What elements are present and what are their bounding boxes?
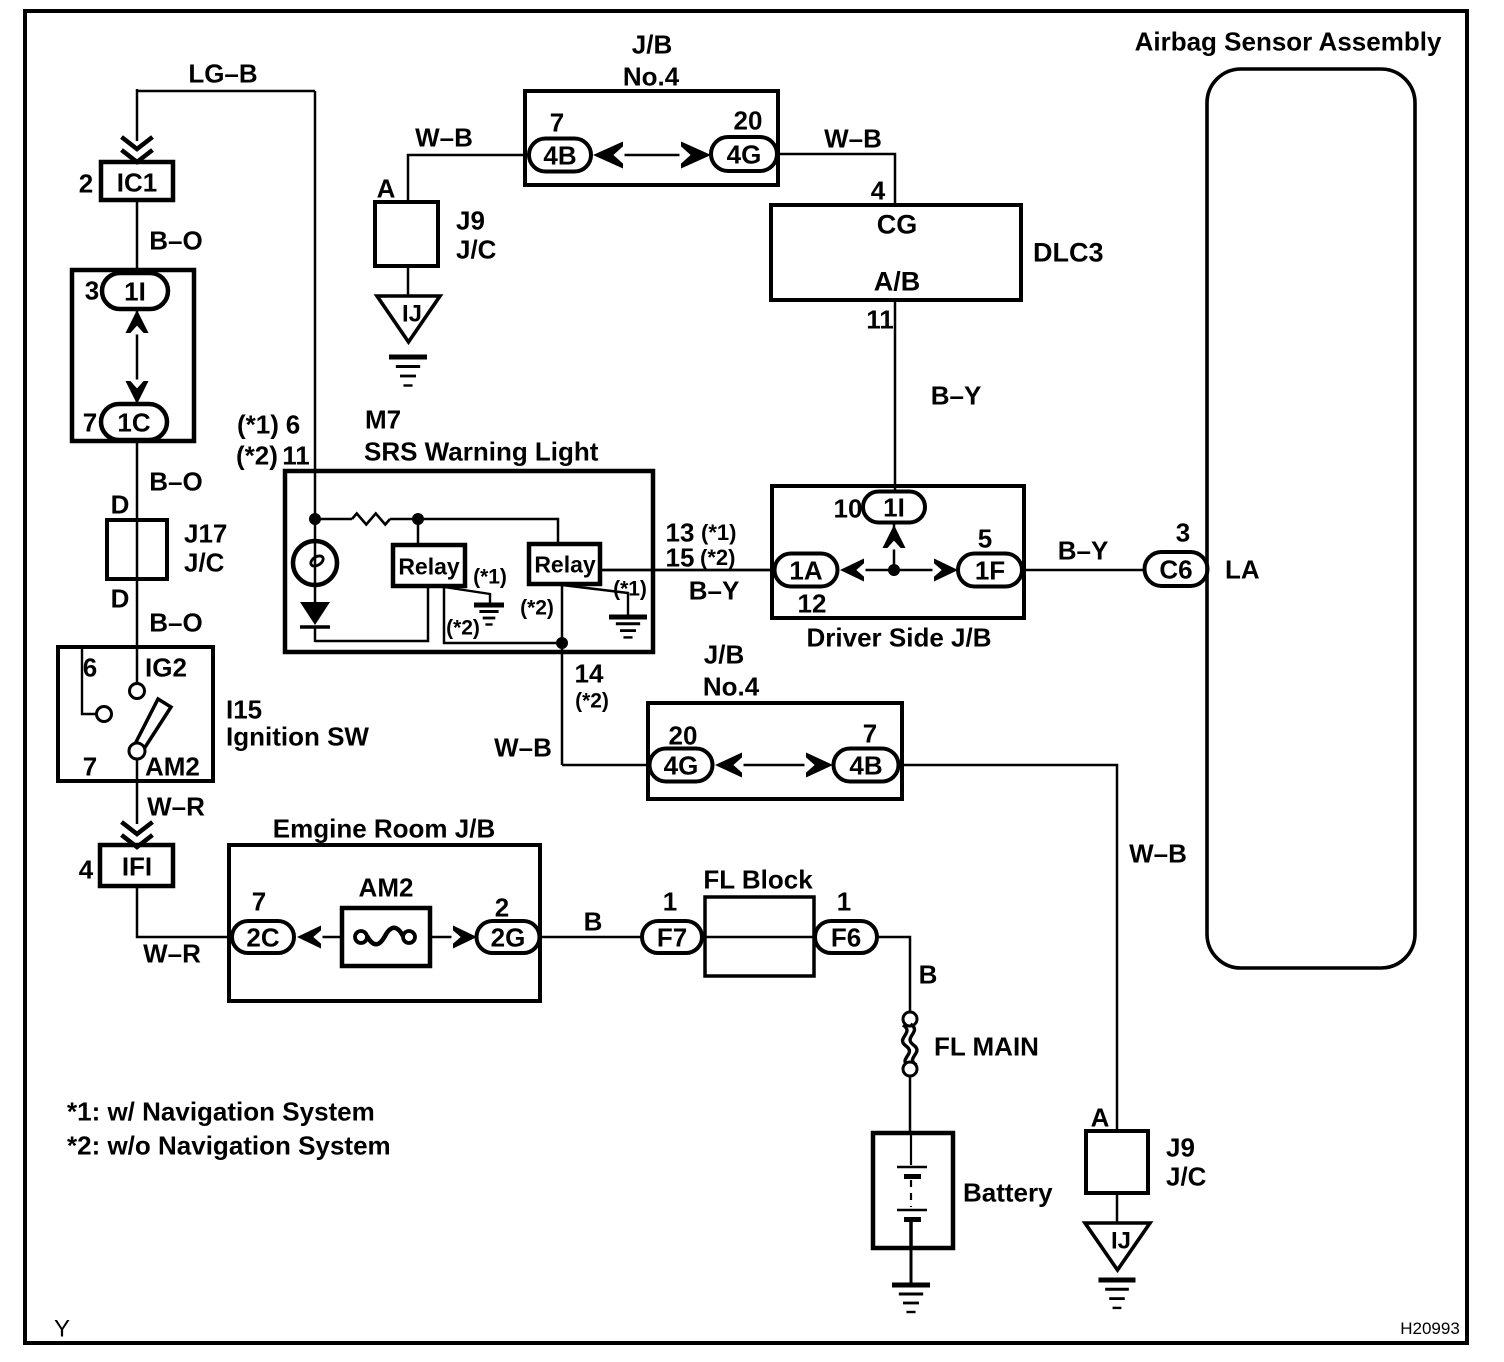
svg-text:J9: J9 bbox=[1166, 1132, 1195, 1162]
svg-text:A: A bbox=[377, 173, 396, 203]
svg-text:(*2): (*2) bbox=[446, 617, 480, 640]
crossing chevrons above IC1 bbox=[122, 137, 153, 162]
svg-text:Emgine Room J/B: Emgine Room J/B bbox=[273, 813, 495, 843]
svg-text:FL Block: FL Block bbox=[703, 864, 813, 894]
svg-text:I15: I15 bbox=[226, 694, 262, 724]
label W-B top right bbox=[824, 123, 882, 153]
terminal A/B label bbox=[874, 267, 921, 297]
wire through J9 bottom bbox=[1116, 1193, 1119, 1225]
svg-text:10: 10 bbox=[834, 493, 863, 523]
svg-text:Y: Y bbox=[54, 1316, 70, 1343]
svg-text:D: D bbox=[111, 489, 130, 519]
pin 2 label above 2G bbox=[495, 892, 509, 922]
label Battery bbox=[963, 1177, 1053, 1207]
relay2 ground symbol bbox=[609, 617, 647, 637]
svg-text:1C: 1C bbox=[117, 407, 150, 437]
label B-O middle bbox=[149, 466, 202, 496]
junction block 1I/1C box bbox=[72, 270, 194, 441]
svg-text:(*1): (*1) bbox=[473, 566, 507, 589]
label A bottom J9 bbox=[1091, 1102, 1110, 1132]
svg-text:W–B: W–B bbox=[1129, 838, 1187, 868]
page letter Y bbox=[54, 1316, 70, 1343]
connector oval 4B top bbox=[529, 139, 591, 172]
svg-text:W–R: W–R bbox=[143, 938, 201, 968]
connector oval 1I driver bbox=[863, 492, 925, 523]
svg-text:7: 7 bbox=[83, 751, 97, 781]
label LA bbox=[1225, 554, 1260, 584]
crossing chevrons above IF1 bbox=[122, 822, 153, 847]
pin 6 label bbox=[83, 652, 97, 682]
label DLC3 bbox=[1033, 238, 1104, 268]
wire AM2 down (W-R) bbox=[136, 759, 139, 824]
svg-text:IJ: IJ bbox=[1111, 1228, 1131, 1255]
wire into 4G lower bbox=[562, 764, 650, 767]
svg-text:3: 3 bbox=[85, 275, 99, 305]
svg-text:DLC3: DLC3 bbox=[1033, 238, 1104, 268]
wire LG-B horizontal bbox=[137, 90, 315, 93]
label D below J17 bbox=[111, 583, 130, 613]
junction connector J9 bottom bbox=[1086, 1131, 1148, 1193]
svg-text:SRS Warning Light: SRS Warning Light bbox=[364, 436, 599, 466]
connector oval 1F bbox=[958, 554, 1022, 587]
pin 1 label above F6 bbox=[837, 886, 851, 916]
ground triangle IJ top bbox=[377, 296, 440, 342]
connector oval 1I bbox=[102, 273, 168, 309]
label FL MAIN bbox=[934, 1031, 1039, 1061]
switch pigtail wire bbox=[82, 649, 96, 714]
connector IF1 bbox=[100, 845, 173, 886]
pin 20 label above 4G lower bbox=[669, 720, 698, 750]
connector oval 4B lower bbox=[834, 749, 899, 782]
wire relay2 down pin 14 bbox=[561, 584, 564, 765]
wire IF1 to 2C (W-R) bbox=[137, 886, 232, 937]
svg-text:Ignition SW: Ignition SW bbox=[226, 721, 369, 751]
pin 7 label bbox=[83, 407, 97, 437]
label J/B No.4 top bbox=[623, 29, 680, 91]
pin 11 label DLC3 bbox=[866, 304, 894, 334]
Driver Side J/B box bbox=[772, 486, 1024, 618]
IJ bottom ground bbox=[1099, 1280, 1136, 1308]
node junction resistor right bbox=[412, 513, 424, 525]
label B-Y right bbox=[1058, 535, 1109, 565]
svg-text:20: 20 bbox=[734, 105, 763, 135]
svg-text:4G: 4G bbox=[727, 139, 762, 169]
label 13 15 B-Y bbox=[666, 517, 740, 605]
svg-text:D: D bbox=[111, 583, 130, 613]
connector oval 4G top bbox=[711, 137, 777, 171]
wire battery to ground bbox=[910, 1248, 913, 1284]
svg-text:(*2): (*2) bbox=[575, 690, 609, 713]
svg-text:(*2): (*2) bbox=[700, 545, 735, 570]
label (*2) relay1 bbox=[446, 617, 480, 640]
battery internal wire bottom bbox=[909, 1222, 913, 1250]
airbag sensor assembly outline bbox=[1207, 69, 1415, 968]
svg-text:11: 11 bbox=[282, 440, 310, 470]
svg-text:FL MAIN: FL MAIN bbox=[934, 1031, 1039, 1061]
svg-text:H20993: H20993 bbox=[1400, 1319, 1460, 1338]
svg-text:1A: 1A bbox=[789, 555, 822, 585]
arrow down to 1C bbox=[126, 380, 149, 405]
svg-text:AM2: AM2 bbox=[359, 872, 414, 902]
wire relay1 to pin14 run bbox=[444, 586, 562, 643]
svg-text:W–B: W–B bbox=[494, 732, 552, 762]
wire 4B to 4G internal top bbox=[615, 154, 689, 157]
connector oval 1C bbox=[101, 404, 167, 440]
svg-text:J/B: J/B bbox=[632, 29, 672, 59]
label pins (*1)6 (*2)11 bbox=[236, 409, 310, 470]
arrow into 2G bbox=[452, 926, 478, 949]
svg-text:J17: J17 bbox=[184, 518, 227, 548]
pin 10 label bbox=[834, 493, 863, 523]
battery internal dashes bbox=[910, 1180, 912, 1207]
arrow into 1F bbox=[933, 559, 959, 582]
wire relay2 to driver J/B bbox=[600, 569, 774, 572]
svg-text:12: 12 bbox=[798, 588, 827, 618]
svg-text:4: 4 bbox=[79, 854, 94, 884]
connector oval 4G lower bbox=[650, 749, 713, 782]
switch contact IG2 circle bbox=[130, 684, 145, 699]
FL Block box bbox=[705, 897, 814, 976]
svg-text:3: 3 bbox=[1176, 517, 1190, 547]
svg-text:15: 15 bbox=[666, 542, 695, 572]
pin 3 label C6 bbox=[1176, 517, 1190, 547]
wire 4G to 4B internal lower bbox=[737, 764, 811, 767]
diode in M7 bbox=[300, 602, 330, 627]
label (*1) relay2 bbox=[613, 578, 647, 601]
note navigation *1 bbox=[67, 1096, 375, 1126]
connector oval 2C bbox=[232, 921, 294, 953]
connector oval C6 bbox=[1145, 552, 1208, 586]
pin 7 label above 4B lower bbox=[863, 718, 877, 748]
relay1 ground branch (*1) bbox=[444, 587, 490, 605]
svg-text:(*1): (*1) bbox=[613, 578, 647, 601]
svg-text:2G: 2G bbox=[491, 922, 526, 952]
svg-text:No.4: No.4 bbox=[703, 671, 760, 701]
svg-text:W–B: W–B bbox=[415, 122, 473, 152]
terminal IG2 label bbox=[145, 652, 187, 682]
svg-text:B–Y: B–Y bbox=[689, 575, 740, 605]
Engine Room J/B box bbox=[229, 845, 540, 1001]
connector oval 1A bbox=[775, 554, 838, 587]
label W-R upper bbox=[147, 791, 205, 821]
J/B No.4 top box bbox=[525, 91, 778, 185]
fuse AM2 label bbox=[359, 872, 414, 902]
wire through J9 top bbox=[407, 266, 410, 298]
fusible link FL MAIN squiggle bbox=[903, 1024, 917, 1066]
svg-text:4: 4 bbox=[871, 175, 886, 205]
arrow up to 1I bbox=[126, 310, 149, 335]
connector oval F6 bbox=[815, 921, 877, 953]
figure number H20993 bbox=[1400, 1319, 1460, 1338]
svg-text:B–O: B–O bbox=[149, 607, 202, 637]
svg-text:Airbag Sensor Assembly: Airbag Sensor Assembly bbox=[1135, 26, 1442, 56]
wire IC1 to 1I (B-O) bbox=[136, 200, 139, 274]
svg-text:4B: 4B bbox=[543, 140, 576, 170]
wire junction to relay2 bbox=[418, 519, 558, 545]
svg-text:A/B: A/B bbox=[874, 267, 921, 297]
pin 4 label DLC3 bbox=[871, 175, 886, 205]
arrow into 4G top bbox=[680, 142, 712, 169]
label LG-B bbox=[188, 58, 257, 88]
svg-text:1: 1 bbox=[663, 886, 677, 916]
wire diode to bottom bbox=[314, 627, 317, 642]
pin 7 label above 2C bbox=[252, 886, 266, 916]
wire 4B to J9 (W-B) bbox=[408, 155, 529, 204]
switch lever bbox=[134, 699, 171, 752]
svg-text:LA: LA bbox=[1225, 554, 1260, 584]
label B battery side bbox=[919, 959, 938, 989]
svg-text:No.4: No.4 bbox=[623, 61, 680, 91]
label W-B left of lower JB bbox=[494, 732, 552, 762]
pin 4 label bbox=[79, 854, 94, 884]
label J9 J/C top bbox=[456, 205, 497, 264]
svg-text:1: 1 bbox=[837, 886, 851, 916]
arrow into 4G lower bbox=[715, 753, 744, 778]
svg-text:7: 7 bbox=[550, 107, 564, 137]
svg-text:1F: 1F bbox=[975, 555, 1005, 585]
svg-text:IC1: IC1 bbox=[117, 167, 157, 197]
svg-text:B–O: B–O bbox=[149, 466, 202, 496]
svg-text:M7: M7 bbox=[365, 404, 401, 434]
svg-text:CG: CG bbox=[877, 210, 918, 240]
pin 3 label bbox=[85, 275, 99, 305]
DLC3 box bbox=[771, 205, 1021, 300]
junction connector J17 J/C bbox=[107, 520, 167, 579]
junction connector J9 top bbox=[375, 202, 438, 266]
svg-text:(*2): (*2) bbox=[236, 440, 278, 470]
relay 1 bbox=[393, 545, 465, 586]
fusible link bottom terminal bbox=[903, 1062, 917, 1076]
svg-text:5: 5 bbox=[978, 523, 992, 553]
svg-text:1I: 1I bbox=[883, 492, 905, 522]
svg-text:6: 6 bbox=[83, 652, 97, 682]
wire F7 through FL Block to F6 bbox=[702, 936, 816, 939]
svg-text:J/C: J/C bbox=[456, 234, 497, 264]
svg-text:14: 14 bbox=[575, 658, 604, 688]
relay 2 bbox=[529, 544, 600, 584]
battery ground bbox=[892, 1285, 930, 1312]
wire junction to relay1 bbox=[417, 519, 420, 546]
note navigation *2 bbox=[67, 1130, 391, 1160]
svg-text:F6: F6 bbox=[831, 922, 861, 952]
svg-text:A: A bbox=[1091, 1102, 1110, 1132]
wire 4G to DLC3 (W-B) bbox=[777, 154, 895, 206]
connector oval F7 bbox=[642, 921, 702, 953]
pin 7 label AM2 bbox=[83, 751, 97, 781]
pin 5 label bbox=[978, 523, 992, 553]
wire 2G to F7 (B) bbox=[539, 936, 642, 939]
pin 12 label bbox=[798, 588, 827, 618]
SRS warning light box bbox=[285, 471, 653, 652]
svg-text:2: 2 bbox=[79, 168, 93, 198]
switch pivot AM2 circle bbox=[129, 743, 145, 759]
label M7 SRS Warning Light bbox=[364, 404, 599, 466]
wire 1A to 1F bus bbox=[862, 569, 934, 572]
svg-text:4G: 4G bbox=[664, 750, 699, 780]
wire fuse to 2G bbox=[430, 936, 455, 939]
pin 7 label above 4B bbox=[550, 107, 564, 137]
wire 1F to C6 (B-Y) bbox=[1022, 569, 1146, 572]
fuse AM2 box bbox=[342, 908, 430, 966]
svg-text:J9: J9 bbox=[456, 205, 485, 235]
node junction driver bbox=[888, 564, 900, 576]
label (*1) relay1 bbox=[473, 566, 507, 589]
wire 1C to ignition switch (B-O) bbox=[136, 440, 139, 684]
label W-B top left bbox=[415, 122, 473, 152]
svg-text:2: 2 bbox=[495, 892, 509, 922]
svg-text:W–R: W–R bbox=[147, 791, 205, 821]
fusible link top terminal bbox=[903, 1012, 917, 1026]
svg-text:6: 6 bbox=[286, 409, 300, 439]
svg-text:7: 7 bbox=[863, 718, 877, 748]
wire F6 to battery branch bbox=[877, 937, 910, 1012]
node junction lamp bbox=[309, 513, 321, 525]
svg-text:F7: F7 bbox=[657, 922, 687, 952]
svg-text:B–Y: B–Y bbox=[1058, 535, 1109, 565]
svg-text:(*1): (*1) bbox=[701, 520, 736, 545]
svg-text:7: 7 bbox=[83, 407, 97, 437]
label J9 J/C bottom bbox=[1166, 1132, 1207, 1191]
svg-text:*2: w/o Navigation System: *2: w/o Navigation System bbox=[67, 1130, 391, 1160]
label J17 J/C bbox=[184, 518, 227, 577]
label B-O lower bbox=[149, 607, 202, 637]
relay1 ground symbol bbox=[474, 605, 504, 625]
label Driver Side J/B bbox=[807, 622, 992, 652]
svg-text:LG–B: LG–B bbox=[188, 58, 257, 88]
svg-text:J/C: J/C bbox=[184, 547, 225, 577]
fuse AM2 element bbox=[355, 928, 415, 945]
svg-text:IFI: IFI bbox=[122, 851, 152, 881]
wire 1I to bus bbox=[893, 524, 896, 570]
connector IC1 pin 2 label bbox=[79, 168, 93, 198]
svg-text:B–O: B–O bbox=[149, 225, 202, 255]
wire LG-B drop to IC1 bbox=[136, 89, 139, 141]
svg-text:(*1): (*1) bbox=[237, 409, 279, 439]
svg-text:C6: C6 bbox=[1159, 554, 1192, 584]
label Emgine Room J/B bbox=[273, 813, 495, 843]
node junction pin14 bbox=[556, 637, 568, 649]
svg-text:Relay: Relay bbox=[534, 551, 596, 577]
battery cell 2 bbox=[897, 1210, 927, 1220]
terminal CG label bbox=[877, 210, 918, 240]
arrow into 2C bbox=[297, 926, 323, 949]
FL Block label bbox=[703, 864, 813, 894]
resistor in M7 bbox=[315, 514, 418, 525]
arrow into 4B lower bbox=[805, 753, 834, 778]
battery internal wire top bbox=[910, 1135, 912, 1165]
svg-text:Battery: Battery bbox=[963, 1177, 1053, 1207]
ground triangle IJ bottom bbox=[1085, 1223, 1150, 1270]
terminal AM2 label bbox=[145, 751, 200, 781]
battery box bbox=[873, 1133, 953, 1248]
label (*2) relay2 bbox=[520, 597, 554, 620]
svg-text:*1: w/ Navigation System: *1: w/ Navigation System bbox=[67, 1096, 375, 1126]
svg-text:B: B bbox=[584, 906, 603, 936]
wire DLC3 to driver J/B (B-Y) bbox=[894, 300, 897, 492]
ignition switch I15 box bbox=[58, 647, 213, 781]
wire LG-B into M7 bbox=[314, 91, 317, 519]
wire between 1I and 1C bbox=[136, 309, 139, 404]
svg-text:1I: 1I bbox=[124, 276, 146, 306]
label Airbag Sensor Assembly bbox=[1135, 26, 1442, 56]
label J/B No.4 lower bbox=[703, 639, 760, 701]
label I15 Ignition SW bbox=[226, 694, 369, 751]
switch second contact circle bbox=[97, 707, 112, 722]
svg-text:4B: 4B bbox=[849, 750, 882, 780]
svg-text:2C: 2C bbox=[246, 922, 279, 952]
label B-Y vertical bbox=[931, 380, 982, 410]
label W-B right branch bbox=[1129, 838, 1187, 868]
arrow up to 1I driver bbox=[883, 525, 906, 550]
J/B No.4 lower box bbox=[648, 703, 902, 799]
wire 2C to fuse AM2 bbox=[318, 936, 344, 939]
pin 20 label above 4G bbox=[734, 105, 763, 135]
connector oval 2G bbox=[477, 921, 540, 953]
svg-text:Relay: Relay bbox=[398, 553, 460, 579]
svg-text:B: B bbox=[919, 959, 938, 989]
label B-O upper bbox=[149, 225, 202, 255]
wire link to battery bbox=[909, 1076, 912, 1135]
wire lamp bottom run bbox=[315, 586, 428, 641]
label A top J9 bbox=[377, 173, 396, 203]
arrow into 4B top bbox=[593, 142, 625, 169]
connector IC1 bbox=[101, 162, 173, 200]
svg-text:AM2: AM2 bbox=[145, 751, 200, 781]
svg-text:W–B: W–B bbox=[824, 123, 882, 153]
svg-text:11: 11 bbox=[866, 304, 894, 334]
svg-text:7: 7 bbox=[252, 886, 266, 916]
battery cell 1 bbox=[897, 1167, 927, 1177]
lamp bulb bbox=[293, 519, 337, 604]
label D above J17 bbox=[111, 489, 130, 519]
arrow into 1A bbox=[840, 559, 866, 582]
svg-text:(*2): (*2) bbox=[520, 597, 554, 620]
svg-text:Driver Side J/B: Driver Side J/B bbox=[807, 622, 992, 652]
relay2 ground branch (*1) bbox=[562, 585, 628, 616]
svg-text:B–Y: B–Y bbox=[931, 380, 982, 410]
pin 1 label above F7 bbox=[663, 886, 677, 916]
svg-text:J/B: J/B bbox=[704, 639, 744, 669]
svg-text:J/C: J/C bbox=[1166, 1161, 1207, 1191]
svg-text:IJ: IJ bbox=[402, 301, 422, 328]
IJ top ground bbox=[389, 357, 427, 386]
label B fuse side bbox=[584, 906, 603, 936]
wire 4B to J9 bottom (W-B) bbox=[898, 765, 1117, 1133]
label pin 14 (*2) bbox=[575, 658, 609, 712]
svg-text:IG2: IG2 bbox=[145, 652, 187, 682]
svg-text:20: 20 bbox=[669, 720, 698, 750]
label W-R lower bbox=[143, 938, 201, 968]
